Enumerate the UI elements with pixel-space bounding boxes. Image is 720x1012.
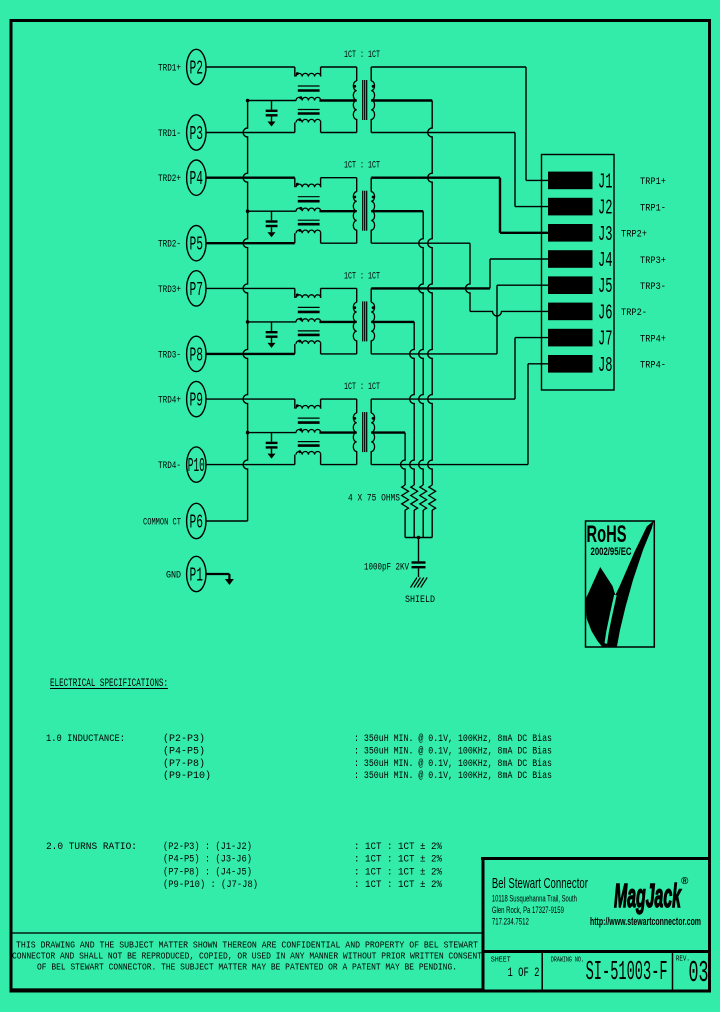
svg-text:J8: J8 — [598, 355, 613, 378]
svg-text:P2: P2 — [190, 58, 204, 80]
svg-text:TRP1-: TRP1- — [640, 202, 666, 214]
svg-text:P6: P6 — [190, 512, 204, 534]
svg-text:: 350uH MIN. @ 0.1V, 100KHz,: : 350uH MIN. @ 0.1V, 100KHz, 8mA DC Bias — [354, 758, 552, 770]
svg-text:TRP2+: TRP2+ — [621, 229, 647, 241]
svg-text:P7: P7 — [190, 279, 204, 301]
svg-text:(P7-P8) : (J4-J5): (P7-P8) : (J4-J5) — [163, 866, 252, 878]
svg-text:03: 03 — [689, 956, 709, 991]
svg-text:J3: J3 — [598, 224, 613, 247]
svg-text:2.0 TURNS RATIO:: 2.0 TURNS RATIO: — [46, 841, 137, 853]
svg-text:TRD1-: TRD1- — [158, 129, 181, 140]
svg-text:SHIELD: SHIELD — [405, 594, 435, 606]
svg-text:MagJack: MagJack — [614, 877, 682, 914]
svg-text:GND: GND — [166, 571, 181, 582]
svg-text:TRP3+: TRP3+ — [640, 255, 666, 267]
svg-text:: 1CT : 1CT ± 2%: : 1CT : 1CT ± 2% — [354, 879, 443, 891]
svg-text:: 350uH MIN. @ 0.1V, 100KHz,: : 350uH MIN. @ 0.1V, 100KHz, 8mA DC Bias — [354, 770, 552, 782]
svg-text:J2: J2 — [598, 198, 613, 221]
svg-text:TRP2-: TRP2- — [621, 307, 647, 319]
svg-text:10118 Susquehanna Trail, South: 10118 Susquehanna Trail, South — [492, 894, 577, 904]
svg-text:P5: P5 — [190, 234, 204, 256]
svg-text:(P4-P5) : (J3-J6): (P4-P5) : (J3-J6) — [163, 854, 252, 866]
svg-text:P4: P4 — [190, 168, 204, 190]
svg-text:1 OF 2: 1 OF 2 — [508, 965, 540, 980]
svg-text:(P2-P3) : (J1-J2): (P2-P3) : (J1-J2) — [163, 841, 252, 853]
svg-text:: 1CT : 1CT ± 2%: : 1CT : 1CT ± 2% — [354, 854, 443, 866]
svg-text:DRAWING NO.: DRAWING NO. — [551, 957, 584, 965]
svg-text:OF BEL STEWART CONNECTOR. THE: OF BEL STEWART CONNECTOR. THE SUBJECT MA… — [37, 963, 457, 973]
svg-text:TRP1+: TRP1+ — [640, 176, 666, 188]
svg-text:J6: J6 — [598, 302, 613, 325]
svg-text:P10: P10 — [188, 455, 205, 477]
svg-text:P9: P9 — [190, 390, 204, 412]
svg-text:RoHS: RoHS — [587, 521, 627, 548]
svg-text:P1: P1 — [190, 565, 204, 587]
svg-text:1CT : 1CT: 1CT : 1CT — [344, 50, 380, 61]
svg-text:TRD3-: TRD3- — [158, 350, 181, 361]
svg-text:: 350uH MIN. @ 0.1V, 100KHz,: : 350uH MIN. @ 0.1V, 100KHz, 8mA DC Bias — [354, 733, 552, 745]
svg-text:(P9-P10): (P9-P10) — [163, 770, 211, 782]
svg-text:J4: J4 — [598, 250, 613, 273]
svg-text:http://www.stewartconnector.co: http://www.stewartconnector.com — [590, 916, 701, 928]
svg-text:J5: J5 — [598, 276, 613, 299]
svg-text:SI-51003-F: SI-51003-F — [586, 958, 668, 988]
svg-text:CONNECTOR AND SHALL NOT BE REP: CONNECTOR AND SHALL NOT BE REPRODUCED, C… — [12, 952, 483, 962]
svg-text:TRD3+: TRD3+ — [158, 285, 181, 296]
svg-text:2002/95/EC: 2002/95/EC — [591, 546, 632, 558]
svg-text:THIS DRAWING AND THE SUBJECT M: THIS DRAWING AND THE SUBJECT MATTER SHOW… — [16, 941, 479, 951]
svg-text:1CT : 1CT: 1CT : 1CT — [344, 161, 380, 172]
svg-text:®: ® — [681, 876, 689, 887]
svg-text:TRD1+: TRD1+ — [158, 64, 181, 75]
svg-text:TRD4-: TRD4- — [158, 461, 181, 472]
svg-text:COMMON CT: COMMON CT — [143, 518, 181, 529]
svg-text:(P9-P10) : (J7-J8): (P9-P10) : (J7-J8) — [163, 879, 258, 891]
svg-text:J7: J7 — [598, 329, 613, 352]
svg-text:1CT : 1CT: 1CT : 1CT — [344, 382, 380, 393]
svg-text:(P2-P3): (P2-P3) — [163, 733, 205, 745]
svg-text:TRD4+: TRD4+ — [158, 396, 181, 407]
svg-text:1CT : 1CT: 1CT : 1CT — [344, 271, 380, 282]
svg-text:TRP3-: TRP3- — [640, 281, 666, 293]
svg-text:TRD2-: TRD2- — [158, 240, 181, 251]
svg-text:(P7-P8): (P7-P8) — [163, 758, 205, 770]
svg-text:: 1CT : 1CT ± 2%: : 1CT : 1CT ± 2% — [354, 866, 443, 878]
svg-text:: 1CT : 1CT ± 2%: : 1CT : 1CT ± 2% — [354, 841, 443, 853]
svg-text:SHEET: SHEET — [491, 957, 511, 965]
svg-text:TRP4+: TRP4+ — [640, 333, 666, 345]
svg-text:4 X 75 OHMS: 4 X 75 OHMS — [348, 494, 400, 505]
svg-text:P3: P3 — [190, 123, 204, 145]
svg-text:TRD2+: TRD2+ — [158, 174, 181, 185]
svg-text:717.234.7512: 717.234.7512 — [492, 916, 529, 926]
svg-text:P8: P8 — [190, 344, 204, 366]
svg-text:Bel Stewart Connector: Bel Stewart Connector — [492, 876, 588, 892]
svg-text:TRP4-: TRP4- — [640, 360, 666, 372]
svg-text:1000pF 2KV: 1000pF 2KV — [364, 563, 409, 574]
svg-text:J1: J1 — [598, 171, 613, 194]
svg-text:1.0 INDUCTANCE:: 1.0 INDUCTANCE: — [46, 733, 125, 745]
svg-text:(P4-P5): (P4-P5) — [163, 745, 205, 757]
svg-text:Glen Rock, Pa 17327-9159: Glen Rock, Pa 17327-9159 — [492, 905, 564, 915]
svg-text:: 350uH MIN. @ 0.1V, 100KHz,: : 350uH MIN. @ 0.1V, 100KHz, 8mA DC Bias — [354, 745, 552, 757]
